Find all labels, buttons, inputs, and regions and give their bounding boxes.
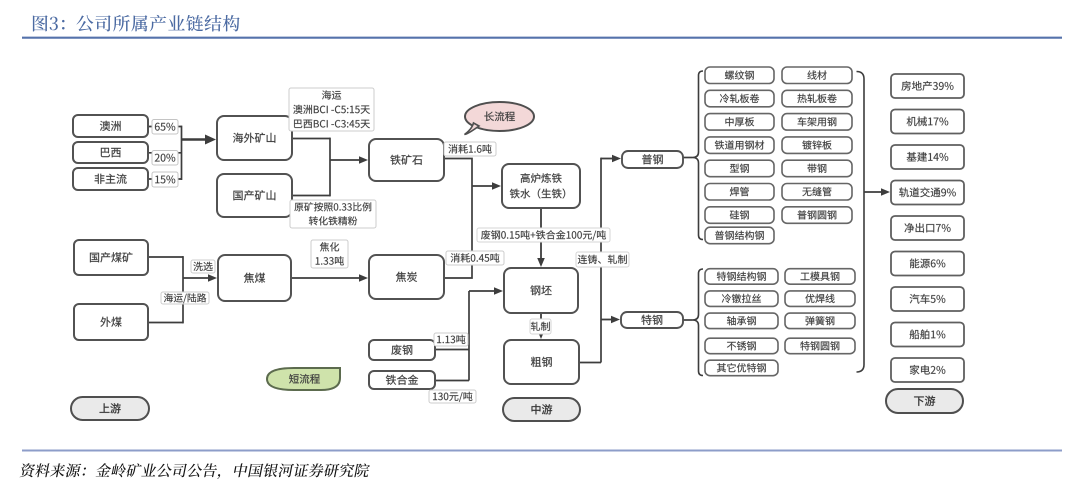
arrow bus to 普钢 (601, 158, 612, 160)
box 铁合金 (369, 371, 435, 389)
wire mine bus vertical (329, 138, 331, 197)
wire percent bus vertical (181, 126, 183, 180)
box 外煤 (74, 304, 148, 340)
label 15% (152, 172, 178, 187)
callout 短流程 (267, 368, 340, 390)
demand box 家电2% (891, 358, 964, 382)
label 连铸、轧制 (576, 252, 629, 267)
demand box 机械17% (891, 110, 964, 134)
product box 型钢 (705, 160, 774, 177)
product box 不锈钢 (705, 338, 778, 354)
product box 工模具钢 (785, 269, 855, 285)
product box 轴承钢 (705, 313, 778, 329)
demand box 能源6% (891, 252, 964, 276)
bracket products to demand (857, 72, 865, 373)
label 焦化1.33吨 (311, 240, 348, 268)
arrow 焦煤 to 焦炭 (291, 277, 359, 279)
product box 优焊线 (785, 291, 855, 307)
stadium 上游 (71, 397, 149, 420)
arrow 高炉 to 钢坯 (540, 208, 542, 258)
box 钢坯 (504, 268, 578, 313)
box 国产矿山 (217, 174, 292, 217)
product box 冷镦拉丝 (705, 291, 778, 307)
wire steel bus vertical (600, 158, 602, 363)
arrow bus to 特钢 (601, 319, 611, 321)
box 焦炭 (369, 255, 444, 299)
box 澳洲 (73, 115, 148, 137)
wire 国产矿山 right (292, 195, 330, 197)
label 1.13吨 (434, 333, 468, 346)
label 消耗0.45吨 (446, 251, 504, 265)
arrow to 高炉 blast furnace (472, 185, 492, 187)
product box 螺纹钢 (705, 67, 774, 84)
product box 特钢结构钢 (705, 269, 778, 285)
product box 焊管 (705, 184, 774, 201)
demand box 房地产39% (891, 74, 964, 98)
top rule (22, 37, 1062, 39)
stadium 中游 (503, 398, 580, 421)
wire scrap bus vertical (468, 291, 470, 381)
wire 非主流 to 15% bus (148, 178, 182, 180)
wire 粗钢 right (579, 362, 601, 364)
box 高炉炼铁铁水(生铁) (502, 164, 580, 208)
label 130元/吨 (429, 390, 476, 403)
label 海运 BCI shipping (289, 88, 374, 131)
product box 特钢圆钢 (785, 338, 855, 354)
label 轧制 (530, 319, 551, 334)
product box 普钢圆钢 (782, 207, 852, 224)
demand box 汽车5% (891, 287, 964, 311)
product box 带钢 (782, 160, 852, 177)
title 图3 公司所属产业链结构 (33, 15, 65, 31)
arrow scrap to 钢坯 (469, 290, 494, 292)
label 废钢0.15吨+铁合金100元/吨 (477, 228, 610, 242)
wire 巴西 to 20% bus (148, 152, 182, 154)
product box 线材 (782, 67, 852, 84)
box 国产煤矿 (74, 240, 148, 275)
label 海运/陆路 (161, 292, 209, 304)
wire 国产煤矿 right (148, 256, 183, 258)
product box 弹簧钢 (785, 313, 855, 329)
product box 普钢结构钢 (705, 227, 774, 244)
wire 海外矿山 right (292, 138, 330, 140)
demand box 基建14% (891, 145, 964, 169)
arrow bracket to 轨道交通 (864, 191, 881, 193)
stadium 下游 (886, 389, 963, 413)
arrow mines to 铁矿石 (330, 159, 359, 161)
wire 澳洲 to 65% bus (148, 126, 182, 128)
box 粗钢 (504, 340, 579, 384)
arrow bus to 海外矿山 (182, 138, 206, 141)
box 非主流 (73, 168, 148, 190)
product box 铁道用钢材 (705, 137, 774, 154)
bottom rule (22, 450, 1062, 452)
brace 特钢 products (693, 269, 704, 376)
box 焦煤 (218, 255, 291, 301)
box 海外矿山 (217, 116, 292, 160)
wire coal bus vertical (182, 256, 184, 323)
brace 普钢 products (693, 71, 704, 240)
label 原矿按照0.33比例转化铁精粉 (290, 200, 376, 228)
callout 长流程 (465, 102, 534, 131)
product box 镀锌板 (782, 137, 852, 154)
product box 硅钢 (705, 207, 774, 224)
box 铁矿石 (369, 139, 444, 181)
arrow coal to 焦煤 (183, 277, 208, 279)
box 废钢 (369, 340, 435, 360)
wire 铁矿石 right elbow (444, 159, 472, 279)
wire 外煤 right (148, 322, 183, 324)
box 普钢 (622, 151, 683, 168)
box 巴西 (73, 142, 148, 163)
wire 废钢 right (435, 349, 469, 351)
wire 特钢 to brace (683, 319, 693, 321)
product box 中厚板 (705, 114, 774, 131)
label 消耗1.6吨 (444, 142, 496, 156)
demand box 净出口7% (891, 216, 964, 240)
wire 普钢 to brace (683, 157, 693, 159)
demand box 船舶1% (891, 323, 964, 347)
box 特钢 (621, 312, 683, 328)
product box 车架用钢 (782, 114, 852, 131)
arrow 钢坯 to 粗钢 (540, 313, 542, 330)
product box 热轧板卷 (782, 90, 852, 107)
source note 资料来源 (19, 463, 370, 479)
wire 铁合金 right (435, 380, 469, 382)
product box 其它优特钢 (705, 360, 778, 376)
demand box 轨道交通9% (891, 181, 964, 205)
label 洗选 (191, 260, 215, 273)
product box 无缝管 (782, 184, 852, 201)
label 65% (152, 120, 178, 135)
product box 冷轧板卷 (705, 90, 774, 107)
label 20% (152, 151, 178, 166)
